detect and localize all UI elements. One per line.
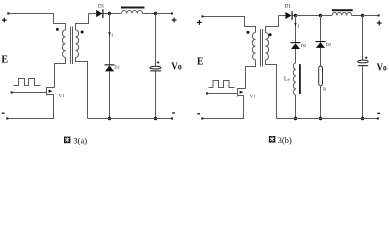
svg-text:D3: D3	[326, 42, 331, 47]
node A junction dot (b)	[294, 14, 297, 17]
bottom-left rail (b)	[202, 96, 244, 119]
transformer T1 primary dot	[56, 28, 59, 31]
svg-text:La: La	[284, 77, 290, 83]
caption 图3(b)	[269, 135, 292, 145]
svg-text:3(a): 3(a)	[73, 135, 87, 145]
wire end tick (a top-left)	[7, 12, 9, 14]
wire top-left rail (a)	[8, 14, 66, 31]
svg-text:D2: D2	[301, 43, 306, 48]
bottom-left rail (a)	[7, 95, 54, 119]
wire D2 to La (b)	[295, 49, 297, 63]
transformer T2 secondary winding	[266, 16, 279, 119]
capacitor C polarity tick (a)	[157, 61, 160, 64]
capacitor C bottom plate (a)	[150, 70, 161, 71]
wire end tick (a gate-left)	[11, 91, 13, 93]
wire end tick (b top-left)	[201, 15, 203, 17]
resistor R (b)	[319, 66, 323, 86]
wire end tick (a bottom-right)	[171, 117, 173, 119]
transformer T1 secondary winding	[76, 14, 89, 119]
wire top-left rail (b)	[202, 17, 255, 33]
bottom output rail (b)	[277, 118, 378, 120]
wire D1 to node A (b)	[293, 15, 296, 17]
wire end tick (b bottom-left)	[201, 117, 203, 119]
svg-text:i: i	[298, 24, 300, 30]
wire secondary to D1 (b)	[279, 15, 286, 17]
inductor L bar (b)	[332, 9, 353, 11]
svg-text:i: i	[111, 33, 113, 39]
node - (input minus, circuit a)	[2, 113, 5, 114]
transformer T1 primary winding	[55, 30, 66, 88]
current arrow i (a)	[108, 32, 110, 36]
wire end tick (a top-right)	[171, 12, 173, 14]
diode D2 (b)	[291, 42, 301, 49]
svg-text:D2: D2	[114, 65, 119, 70]
inductor L winding (b)	[332, 12, 352, 15]
junction dot La bottom (b)	[294, 117, 297, 120]
wire end tick (b top-right)	[378, 14, 380, 16]
capacitor C top plate (a)	[150, 66, 161, 69]
capacitor C bottom plate (b)	[358, 65, 368, 66]
gate lead wire (a)	[12, 92, 47, 94]
transformer T1 core	[71, 27, 73, 65]
inductor La bar (b)	[299, 64, 301, 94]
wire La to bottom rail (b)	[295, 95, 297, 118]
diode D3 (b)	[316, 41, 326, 48]
transformer T2 primary winding	[246, 33, 256, 89]
wire node C down to D3 (b)	[320, 16, 322, 42]
wire node A down to D2 (b)	[295, 16, 297, 43]
MOSFET V1 arrow (b)	[240, 91, 244, 94]
svg-text:E: E	[197, 56, 204, 67]
node output - label (b)	[377, 113, 380, 114]
node + (input plus, circuit b)	[197, 20, 202, 25]
wire node A to inductor L (a)	[110, 13, 122, 15]
wire resistor to bottom rail (b)	[320, 86, 322, 119]
wire end tick (a bottom-left)	[6, 117, 8, 119]
node output + label (a)	[172, 18, 177, 23]
diode D2 (a)	[105, 64, 115, 71]
wire inductor to node D (b)	[352, 15, 363, 17]
inductor L winding (a)	[122, 10, 143, 13]
wire D3 to resistor R (b)	[320, 48, 322, 66]
wire node B to output + terminal (a)	[156, 13, 173, 15]
gate lead wire (b)	[207, 93, 238, 95]
wire D1 to node A (a)	[104, 13, 110, 15]
diode D1 (b)	[285, 11, 292, 20]
svg-text:3(b): 3(b)	[278, 135, 292, 145]
wire node B down to capacitor (a)	[155, 14, 157, 67]
wire end tick (b gate-left)	[206, 92, 208, 94]
node - (input minus, circuit b)	[197, 113, 200, 114]
node C junction dot (b)	[319, 14, 322, 17]
transformer T2 primary dot	[247, 31, 250, 34]
gate drive square wave (b)	[209, 81, 235, 88]
svg-text:R: R	[323, 86, 326, 91]
svg-text:V1: V1	[59, 93, 65, 98]
node D junction dot (b)	[361, 14, 364, 17]
wire node A down to D2 (a)	[109, 14, 111, 65]
MOSFET V1 arrow (a)	[49, 90, 53, 93]
MOSFET V1 (a)	[47, 88, 55, 119]
node B junction dot (a)	[154, 12, 157, 15]
node output - label (a)	[172, 112, 175, 113]
caption 图3(a)	[64, 135, 87, 145]
wire inductor to node B (a)	[143, 13, 156, 15]
svg-text:D1: D1	[98, 4, 105, 9]
node output + label (b)	[377, 21, 382, 26]
node A junction dot (a)	[108, 12, 111, 15]
capacitor C polarity tick (b)	[365, 57, 368, 60]
bottom output rail (a)	[88, 118, 173, 120]
transformer T2 core	[261, 29, 263, 67]
wire capacitor to bottom rail (a)	[155, 71, 157, 118]
junction dot D2 bottom (a)	[108, 117, 111, 120]
wire node D to output + (b)	[363, 15, 379, 17]
inductor L bar (a)	[121, 7, 144, 9]
junction dot capacitor bottom (b)	[361, 117, 364, 120]
wire node A to node C (b)	[296, 15, 321, 17]
diode D1 (a)	[96, 9, 103, 18]
svg-text:V1: V1	[250, 94, 256, 99]
wire end tick (b bottom-right)	[377, 117, 379, 119]
junction dot resistor bottom (b)	[319, 117, 322, 120]
svg-text:Vo: Vo	[377, 62, 388, 74]
svg-text:Vo: Vo	[171, 60, 182, 72]
node + (input plus, circuit a)	[2, 18, 7, 23]
transformer T2 secondary dot	[269, 33, 272, 36]
transformer T1 secondary dot	[81, 31, 84, 34]
MOSFET V1 (b)	[238, 89, 246, 119]
capacitor C top plate (b)	[358, 60, 368, 63]
wire node C to inductor L (b)	[321, 15, 333, 17]
wire capacitor to bottom rail (b)	[362, 66, 364, 118]
wire D2 to bottom rail (a)	[109, 71, 111, 118]
wire secondary to D1 (a)	[89, 13, 97, 15]
junction dot capacitor bottom (a)	[154, 117, 157, 120]
current arrow i (b)	[294, 23, 296, 26]
gate drive square wave (a)	[14, 79, 41, 86]
svg-text:D1: D1	[285, 5, 292, 10]
inductor La winding (b)	[293, 63, 296, 96]
svg-text:E: E	[1, 55, 8, 66]
wire node D down to capacitor (b)	[362, 16, 364, 61]
